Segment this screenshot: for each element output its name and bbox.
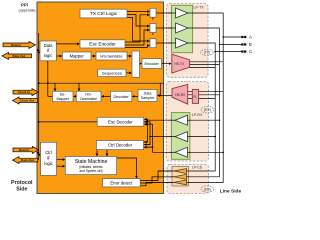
block line driver select box 1 — [150, 8, 156, 17]
arrow Clock In — [13, 89, 38, 96]
wire: decoder feed stub — [144, 146, 153, 148]
wire: HS-TX out C — [190, 67, 216, 69]
wire: mux to Encoder — [140, 63, 142, 65]
svg-text:Side: Side — [16, 187, 27, 193]
wire: line box 1 to LP-TX buffer 1 — [156, 12, 176, 14]
wire: select box 1 tail — [152, 17, 154, 19]
wire: LP-CD out 1 staircase — [140, 171, 174, 181]
wire: Data IF drop to RX row — [47, 61, 49, 97]
svg-text:HS-Serialize: HS-Serialize — [100, 54, 123, 59]
wire: horizontal clock/ctrl distribution — [39, 82, 164, 84]
wire: line box 3 to LP-TX buffer 3 — [156, 42, 176, 44]
terminal A — [241, 35, 252, 40]
wire overlay: LP-TX out 1 through box edge — [188, 12, 193, 14]
wire: HS-Deserialize to De-Mapper — [74, 95, 77, 97]
block De-Mapper — [53, 91, 74, 101]
svg-text:B: B — [249, 42, 252, 47]
block mux — [132, 51, 140, 77]
svg-text:Mapper: Mapper — [70, 54, 85, 59]
wire: Data IF to Mapper — [56, 55, 61, 57]
wire overlay: LP-RX in 1 through box edge — [188, 119, 191, 121]
svg-text:logic: logic — [44, 53, 52, 58]
wire: TX Ctrl Logic out a to line box 1 — [127, 11, 149, 13]
wire: left control bus — [38, 33, 40, 160]
LP-CD detector 1 — [174, 169, 187, 174]
TX module dashed boundary — [167, 4, 208, 78]
wire: terminal B stub — [219, 44, 241, 46]
wire: TX Ctrl Logic out c to line box 3 — [127, 18, 149, 42]
svg-text:Sampler: Sampler — [141, 96, 156, 100]
label (TX) ellipse — [201, 49, 214, 55]
wire: line box 2 to LP-TX buffer 2 — [156, 27, 176, 29]
junction dot LP-RX row2 tap — [214, 136, 216, 138]
svg-text:logic: logic — [44, 161, 52, 166]
wire: Mapper to HS-Serialize — [91, 55, 95, 57]
wire overlay: LP-RX in 3 through box edge — [188, 151, 191, 153]
junction dot — [38, 82, 40, 84]
wire: LP-RX out 3 — [153, 151, 176, 153]
svg-text:Ctrl: Ctrl — [45, 150, 51, 155]
svg-text:De-: De- — [60, 93, 67, 97]
block HS-Serialize — [96, 52, 127, 60]
block Data IF logic — [40, 41, 56, 61]
wire overlay: LP-CD in 1 through box edge — [187, 170, 190, 172]
svg-text:Encoder: Encoder — [144, 61, 159, 66]
wire overlay: LP-CD in 3 through box edge — [187, 181, 190, 183]
wire: drop into De-Mapper top — [54, 83, 56, 91]
label (CD) ellipse — [201, 186, 214, 192]
wire: LP-RX in C — [188, 151, 224, 153]
wire overlay: LP-CD out 2 inside box — [171, 176, 175, 178]
wire: HS-Serialize to mux — [127, 55, 131, 57]
block State Machine — [65, 157, 116, 175]
wire overlay: LP-RX in 2 through box edge — [188, 136, 191, 138]
svg-text:Clock Out: Clock Out — [20, 99, 35, 103]
svg-text:Error detect: Error detect — [110, 180, 133, 185]
wire overlay: LP-TX out 2 through box edge — [188, 27, 193, 29]
LP-TX buffer 3 — [176, 38, 188, 48]
junction dot riser — [160, 95, 162, 97]
svg-text:HS-RX: HS-RX — [175, 93, 186, 97]
wire: decoder feed vertical 1 — [144, 119, 148, 142]
wire: HS-RX line A — [188, 91, 224, 93]
junction dot net B terminal — [219, 44, 221, 46]
LP-CD detector 2 — [174, 174, 187, 179]
svg-text:C: C — [249, 49, 252, 54]
block line driver select box 3 — [150, 39, 156, 48]
wire: Ctrl IF bidir tap in — [37, 152, 39, 154]
resistor Rt termination — [192, 89, 198, 103]
svg-text:Decoder: Decoder — [114, 94, 130, 99]
wire: HS-TX out A — [190, 61, 224, 63]
wire: terminal C stub — [215, 51, 241, 53]
junction dot LP-RX 2 — [149, 136, 151, 138]
wire: LP-CD out 2 staircase — [140, 177, 174, 183]
block line driver select box 2 — [150, 24, 156, 33]
wire overlay: LP-TX in 2 inside box — [168, 27, 176, 29]
wire: Ctrl Decoder input arrow 3 — [145, 146, 153, 148]
wire: Esc Decoder input arrow 3 — [145, 123, 153, 125]
block Ctrl Decoder — [96, 141, 143, 150]
svg-text:Data In: Data In — [11, 43, 21, 47]
arrow Data Out 2 — [13, 157, 38, 164]
wire: Data IF to Esc Encoder — [56, 43, 79, 45]
wire: LP-RX out 1 — [148, 119, 176, 121]
svg-text:Ctrl Decoder: Ctrl Decoder — [108, 143, 133, 148]
svg-text:HS-TX: HS-TX — [175, 62, 185, 66]
wire: HS-RX line B — [188, 94, 220, 96]
arrow Data In 2 — [13, 146, 39, 153]
wire: Esc Decoder input arrow 2 — [145, 121, 150, 123]
receiver HS-RX — [172, 84, 188, 104]
wire: Sequences to mux — [126, 72, 131, 74]
wire: De-Mapper output to Data IF — [48, 95, 53, 97]
wire: Data IF bidir tap in — [37, 49, 39, 51]
svg-text:(RX): (RX) — [204, 108, 211, 112]
svg-text:(TX): (TX) — [204, 51, 211, 55]
svg-text:Mapper: Mapper — [56, 97, 69, 101]
junction dot LP-RX row3 tap — [222, 152, 224, 154]
svg-text:LP-CD: LP-CD — [192, 165, 203, 169]
wire: State Machine to Error detect — [117, 158, 137, 178]
svg-text:Clock In: Clock In — [18, 90, 30, 94]
svg-text:Protocol: Protocol — [11, 180, 33, 186]
LP-TX buffer 2 — [176, 23, 188, 33]
wire: HS-RX line C — [188, 97, 216, 99]
wire: Esc Decoder input arrow 1 — [145, 118, 148, 120]
svg-text:Deserialize: Deserialize — [80, 97, 97, 101]
svg-text:Esc Encoder: Esc Encoder — [89, 42, 116, 47]
junction dot net A terminal — [222, 36, 224, 38]
terminal C — [241, 49, 252, 54]
net C vertical — [158, 43, 215, 171]
svg-text:Esc Decoder: Esc Decoder — [108, 119, 133, 124]
wire: Ctrl Decoder input arrow 2 — [145, 144, 151, 146]
svg-text:A: A — [249, 35, 252, 40]
svg-text:Data Out: Data Out — [13, 54, 26, 58]
wire overlay: LP-TX out 3 through box edge — [188, 42, 193, 44]
block LP-CD contention detector group — [172, 167, 189, 187]
wire: LP-CD out 3 staircase — [140, 182, 174, 185]
svg-text:LP-RX: LP-RX — [192, 113, 203, 117]
block Ctrl IF logic — [41, 142, 57, 175]
wire overlay: LP-RX out 1 inside box — [170, 119, 176, 121]
svg-text:(appendix): (appendix) — [19, 8, 36, 12]
wire overlay: LP-RX out 2 inside box — [170, 136, 176, 138]
wire: LP-RX in A — [188, 119, 220, 121]
transmitter HS-TX — [172, 54, 190, 73]
wire: terminal A stub — [223, 36, 241, 38]
svg-text:(CD): (CD) — [204, 187, 211, 191]
svg-text:LP-TX: LP-TX — [194, 6, 205, 10]
wire overlay: LP-CD out 1 inside box — [171, 170, 175, 172]
wire: HS-RX output to Data Sampler — [158, 95, 172, 97]
block LP-TX buffer group — [172, 5, 193, 52]
svg-text:and System ctrl): and System ctrl) — [79, 169, 102, 173]
arrow Clock Out — [13, 97, 38, 104]
svg-text:Sequences: Sequences — [102, 70, 122, 75]
wire overlay: LP-CD out 3 inside box — [171, 181, 175, 183]
LP-TX buffer 1 — [176, 8, 188, 18]
svg-text:Data Out: Data Out — [21, 158, 34, 162]
block Esc Decoder — [97, 117, 144, 126]
wire: decoder feed vertical 2 — [144, 122, 151, 145]
wire: select box 2 tail — [152, 33, 154, 35]
wire overlay: LP-TX in 1 inside box — [168, 12, 176, 14]
svg-text:TX Ctrl Logic: TX Ctrl Logic — [90, 11, 118, 16]
wire: Esc Decoder output to bus — [39, 121, 97, 123]
block HS-Deserialize — [76, 91, 101, 101]
block Esc Encoder — [80, 40, 125, 48]
CD module dashed boundary — [167, 165, 209, 194]
block Data Sampler — [138, 90, 157, 102]
block Sequences — [98, 69, 126, 76]
svg-text:PPI: PPI — [21, 2, 28, 7]
net B vertical — [152, 28, 219, 177]
junction dot — [47, 82, 49, 84]
arrow Data In 1 — [3, 41, 36, 48]
wire overlay: LP-TX in 3 inside box — [168, 42, 176, 44]
svg-text:HS-: HS- — [85, 93, 92, 97]
wire: Data Sampler to Decoder — [133, 95, 139, 97]
wire: Esc Encoder out a to line box 1 — [125, 15, 149, 42]
wire: Ctrl Decoder input arrow 1 — [145, 141, 148, 143]
block Decoder — [111, 91, 132, 101]
wire overlay: LP-CD in 2 through box edge — [187, 176, 190, 178]
block Error detect — [103, 179, 141, 187]
block LP-RX receiver group — [171, 113, 190, 160]
svg-text:Data: Data — [144, 92, 153, 96]
junction dot LP-RX 3 — [152, 146, 154, 148]
junction dot LP-RX row1 tap — [219, 119, 221, 121]
wire: LP-RX in B — [188, 136, 216, 138]
block Mapper — [62, 52, 91, 60]
svg-text:Data In: Data In — [19, 148, 29, 152]
svg-text:IF: IF — [47, 156, 51, 161]
net A vertical — [146, 13, 223, 182]
block TX Ctrl Logic — [80, 9, 127, 18]
block Encoder — [142, 59, 162, 69]
wire: Data IF bidir tap out — [38, 51, 40, 53]
wire: Ctrl Decoder to State Machine b — [106, 150, 108, 156]
wire overlay: LP-RX out 3 inside box — [170, 151, 176, 153]
main orange lane-module logic block — [37, 2, 164, 194]
LP-RX receiver 2 — [175, 132, 188, 142]
wire: Esc Encoder out c to line box 3 — [125, 46, 149, 48]
LP-CD detector 3 — [174, 180, 187, 185]
junction dot net C terminal — [214, 51, 216, 53]
LP-RX receiver 3 — [175, 147, 188, 157]
wire: drop into HS-Deserialize top — [78, 83, 80, 91]
wire: Ctrl IF bidir tap out — [38, 154, 40, 156]
wire: HS-RX output riser to clock wire — [159, 83, 161, 95]
wire: HS-TX out B — [190, 64, 220, 66]
wire: Ctrl Decoder to State Machine a — [96, 150, 98, 156]
svg-text:Line Side: Line Side — [220, 188, 242, 194]
junction dot LP-RX 1 — [147, 119, 149, 121]
wire: TX Ctrl Logic out b to line box 2 — [127, 15, 149, 27]
wire: decoder feed vertical 3 — [144, 124, 153, 152]
label Protocol Side — [11, 180, 33, 193]
LP-RX receiver 1 — [175, 115, 188, 125]
wire: Ctrl IF to State Machine a — [57, 159, 65, 161]
terminal B — [241, 42, 252, 47]
arrow Data Out 1 — [2, 52, 32, 59]
wire: Encoder to HS-TX — [162, 63, 172, 65]
junction dot — [38, 121, 40, 123]
wire: LP-RX out 2 — [150, 136, 175, 138]
wire: Ctrl IF to State Machine b — [57, 165, 65, 167]
wire: Esc Encoder out b to line box 2 — [125, 30, 149, 45]
RX module dashed boundary — [166, 82, 208, 162]
label (RX) ellipse — [201, 106, 214, 113]
wire: Decoder to HS-Deserialize — [102, 95, 111, 97]
